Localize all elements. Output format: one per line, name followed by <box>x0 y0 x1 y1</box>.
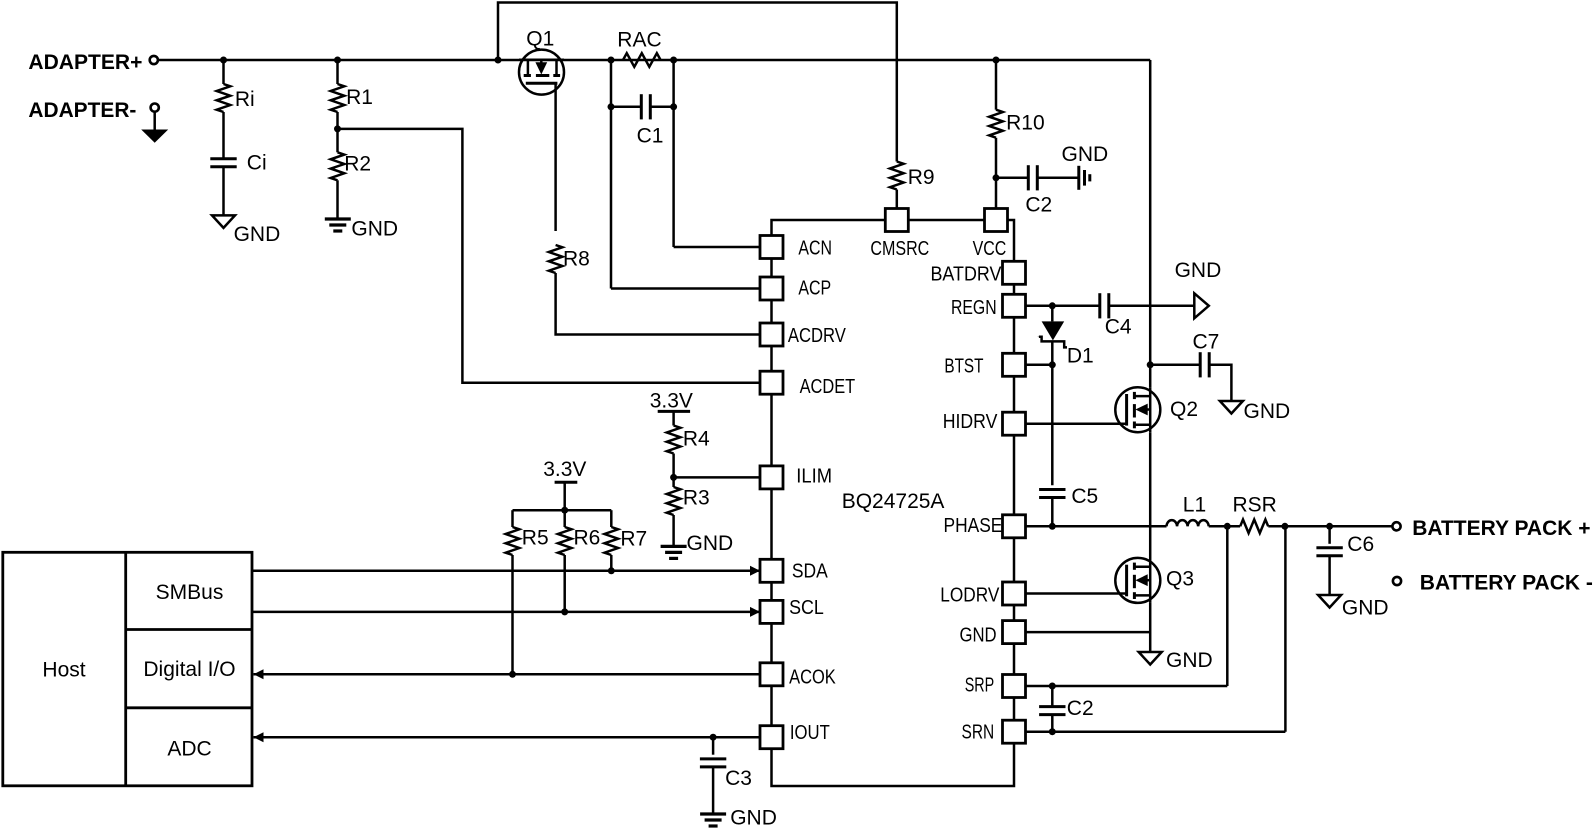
svg-text:R6: R6 <box>574 526 601 549</box>
wire C3 to gnd <box>712 767 715 814</box>
wire bus to R7 <box>610 510 613 527</box>
terminal battery+ <box>1392 522 1400 530</box>
wire L1 to RSR <box>1209 525 1240 528</box>
wire adapter- stub <box>153 112 156 131</box>
capacitor C7 <box>1200 352 1209 377</box>
wire R2 to gnd <box>336 180 339 219</box>
terminal ADAPTER- <box>151 104 159 112</box>
svg-text:ACDRV: ACDRV <box>788 324 846 347</box>
resistor R2 <box>331 152 345 180</box>
wire BTST node to C5 <box>1051 365 1054 486</box>
pin IOUT <box>760 726 783 749</box>
svg-text:Ri: Ri <box>235 88 255 111</box>
capacitor C4 <box>1100 293 1109 318</box>
resistor R6 <box>558 527 572 555</box>
wire to C7 <box>1150 364 1201 367</box>
svg-text:REGN: REGN <box>951 296 997 319</box>
svg-text:C5: C5 <box>1071 485 1098 508</box>
wire R3 to gnd <box>672 515 675 546</box>
wire rail to R1 <box>336 60 339 84</box>
wire to ACN <box>674 246 760 249</box>
inductor L1 <box>1167 520 1209 526</box>
wire node to ACDET <box>338 129 761 383</box>
ground C6 <box>1318 595 1341 608</box>
pin LODRV <box>1003 582 1026 605</box>
ground Ci <box>212 215 235 228</box>
resistor R10 <box>989 110 1003 138</box>
svg-text:RAC: RAC <box>617 29 661 52</box>
adapter- arrow symbol <box>141 130 168 143</box>
wire R10 to VCC <box>995 138 998 209</box>
pin ACOK <box>760 663 783 686</box>
junction R1/R2/ACDET <box>334 125 341 132</box>
IC BQ24725A body <box>772 220 1015 786</box>
resistor R9 <box>890 162 904 190</box>
svg-text:Q2: Q2 <box>1170 398 1198 421</box>
svg-text:R10: R10 <box>1006 112 1045 135</box>
ground C2 (rotated) <box>1079 166 1090 190</box>
svg-text:IOUT: IOUT <box>790 721 830 744</box>
svg-text:ACDET: ACDET <box>800 375 856 398</box>
svg-text:BATDRV: BATDRV <box>931 262 1002 285</box>
arrow SCL into pin <box>750 607 760 617</box>
junction ACOK/R5 <box>509 671 516 678</box>
wire bus to R6 <box>563 510 566 527</box>
wire pullup bus <box>513 509 612 512</box>
junction R4/R3/ILIM <box>670 474 677 481</box>
svg-text:GND: GND <box>1062 143 1109 166</box>
svg-text:ACN: ACN <box>798 237 832 260</box>
wire SRP to C2 <box>1051 686 1054 707</box>
wire R1 to node <box>336 112 339 152</box>
resistor RSR <box>1240 520 1268 534</box>
pin ACP <box>760 277 783 300</box>
svg-text:GND: GND <box>960 624 997 647</box>
junction bus/R6 <box>561 507 568 514</box>
wire rail to R10 <box>995 60 998 110</box>
wire SRP <box>1026 685 1228 688</box>
svg-text:PHASE: PHASE <box>944 514 1003 537</box>
capacitor C6 <box>1316 548 1342 556</box>
svg-text:LODRV: LODRV <box>940 584 999 607</box>
svg-text:D1: D1 <box>1067 345 1094 368</box>
svg-text:C4: C4 <box>1105 316 1132 339</box>
ground C3 <box>700 814 726 826</box>
svg-text:RSR: RSR <box>1233 494 1277 517</box>
wire 3.3V to bus <box>563 482 566 510</box>
junction SRN/C2 <box>1049 728 1056 735</box>
wire GND pin to Q3 source <box>1026 631 1151 634</box>
wire IOUT to C3 <box>712 737 715 755</box>
svg-text:CMSRC: CMSRC <box>870 237 929 260</box>
ground power stage <box>1139 652 1162 665</box>
wire RSR to battery+ <box>1268 525 1392 528</box>
svg-text:C6: C6 <box>1347 533 1374 556</box>
wire PHASE to L1 <box>1026 525 1167 528</box>
wire C6 to gnd <box>1328 556 1331 595</box>
wire LODRV to Q3 gate <box>1026 592 1128 595</box>
svg-text:GND: GND <box>1342 597 1389 620</box>
resistor R4 <box>667 426 681 454</box>
resistor Ri <box>217 84 231 112</box>
pin ACN <box>760 236 783 259</box>
capacitor C3 <box>700 759 726 767</box>
wire SDA <box>252 570 760 573</box>
pin PHASE <box>1003 515 1026 538</box>
svg-text:BQ24725A: BQ24725A <box>842 490 945 513</box>
svg-text:BATTERY PACK -: BATTERY PACK - <box>1420 572 1593 595</box>
wire bus to R5 <box>511 510 514 527</box>
wire C7 to gnd <box>1209 365 1232 401</box>
arrow IOUT into host <box>254 732 264 742</box>
wire IOUT <box>254 736 761 739</box>
pin ACDRV <box>760 323 783 346</box>
terminal ADAPTER+ <box>150 56 158 64</box>
svg-text:C1: C1 <box>637 124 664 147</box>
wire ACOK <box>254 673 761 676</box>
svg-text:R5: R5 <box>522 526 549 549</box>
wire HIDRV to Q2 gate <box>1026 422 1128 425</box>
pin REGN <box>1003 294 1026 317</box>
junction REGN/D1 <box>1049 302 1056 309</box>
junction rail/RAC left <box>608 57 615 64</box>
wire battery to C6 <box>1328 526 1331 544</box>
transistor Q2 <box>1115 387 1160 432</box>
svg-text:R4: R4 <box>683 428 710 451</box>
junction C7 tap <box>1147 361 1154 368</box>
wire R6 to SCL line <box>563 555 566 612</box>
svg-text:VCC: VCC <box>973 237 1007 260</box>
svg-text:SRN: SRN <box>962 720 995 743</box>
junction VCC/C2 <box>993 174 1000 181</box>
resistor R3 <box>667 487 681 515</box>
pin ILIM <box>760 466 783 489</box>
wire rail down to Q2 drain <box>1149 60 1152 387</box>
junction C6 <box>1326 523 1333 530</box>
wire R4 to R3 <box>672 454 675 488</box>
diode D1 (schottky) <box>1042 321 1065 340</box>
wire SRP up to tap <box>1226 526 1229 686</box>
resistor R7 <box>605 527 619 555</box>
wire to C1 left plate <box>611 106 641 109</box>
svg-text:GND: GND <box>687 532 734 555</box>
junction PHASE/C5 <box>1049 523 1056 530</box>
pin BATDRV <box>1003 261 1026 284</box>
transistor Q1 <box>519 50 564 95</box>
wire Q2 source to Q3 drain <box>1149 432 1152 558</box>
svg-text:R1: R1 <box>346 86 373 109</box>
wire SCL <box>252 611 760 614</box>
resistor RAC <box>623 53 661 67</box>
wire to ILIM <box>674 476 760 479</box>
pin HIDRV <box>1003 412 1026 435</box>
junction SRP tap <box>1224 523 1231 530</box>
pin SRN <box>1003 720 1026 743</box>
wire R5 to ACOK line <box>511 555 514 674</box>
wire C5 to PHASE line <box>1051 498 1054 527</box>
svg-text:Digital I/O: Digital I/O <box>143 658 235 681</box>
svg-text:Host: Host <box>42 659 85 682</box>
junction SRP/C2 <box>1049 683 1056 690</box>
junction rail/RAC right <box>670 57 677 64</box>
wire top loop to R9 <box>498 3 897 162</box>
svg-text:ADAPTER-: ADAPTER- <box>28 99 136 122</box>
pin ACDET <box>760 371 783 394</box>
wire C1 right plate out <box>650 106 673 109</box>
capacitor C5 <box>1039 490 1065 498</box>
Host block <box>3 552 252 786</box>
wire SRN <box>1026 730 1286 733</box>
wire C1 right / ACN drop <box>672 60 675 247</box>
junction rail/Ri <box>220 57 227 64</box>
svg-text:HIDRV: HIDRV <box>943 410 998 433</box>
junction SRN tap <box>1281 523 1288 530</box>
wire D1 anode <box>1051 306 1054 322</box>
svg-text:R9: R9 <box>908 166 935 189</box>
svg-text:C2: C2 <box>1025 193 1052 216</box>
svg-text:R2: R2 <box>344 153 371 176</box>
wire rail to Ri <box>222 60 225 84</box>
svg-text:GND: GND <box>730 806 777 829</box>
svg-text:Ci: Ci <box>247 152 267 175</box>
supply bar 3.3V (pullups) <box>555 481 578 484</box>
svg-text:SRP: SRP <box>965 673 995 696</box>
junction C1 left <box>608 103 615 110</box>
capacitor C2 (VCC) <box>1028 165 1037 190</box>
wire to C2 <box>996 177 1028 180</box>
junction IOUT/C3 <box>710 734 717 741</box>
junction rail/top-loop <box>495 57 502 64</box>
svg-text:Q1: Q1 <box>526 28 554 51</box>
wire D1 cathode to BTST node <box>1051 341 1054 364</box>
svg-text:3.3V: 3.3V <box>543 458 586 481</box>
capacitor C1 <box>641 94 650 119</box>
pin CMSRC <box>885 209 908 232</box>
svg-text:C3: C3 <box>725 767 752 790</box>
junction rail/R10 <box>993 57 1000 64</box>
wire SRN up to tap <box>1284 526 1287 731</box>
wire Ri to Ci <box>222 112 225 159</box>
wire Ci to gnd <box>222 167 225 216</box>
resistor R8 <box>549 245 563 273</box>
ground GND arrow (REGN bypass) <box>1194 293 1209 318</box>
svg-text:GND: GND <box>234 223 281 246</box>
svg-text:R3: R3 <box>683 487 710 510</box>
svg-text:R7: R7 <box>620 527 647 550</box>
svg-text:SDA: SDA <box>792 559 828 582</box>
capacitor C2 (sense) <box>1039 707 1065 715</box>
svg-text:SMBus: SMBus <box>156 581 224 604</box>
pin SDA <box>760 559 783 582</box>
pin VCC <box>985 209 1008 232</box>
svg-text:GND: GND <box>351 218 398 241</box>
svg-text:ACP: ACP <box>798 276 831 299</box>
svg-text:ACOK: ACOK <box>789 665 836 688</box>
svg-text:BATTERY PACK +: BATTERY PACK + <box>1412 517 1590 540</box>
svg-text:Q3: Q3 <box>1166 568 1194 591</box>
junction C1 right <box>670 103 677 110</box>
ground C7 <box>1220 401 1243 414</box>
wire C1 left / ACP drop <box>610 60 613 289</box>
svg-text:C7: C7 <box>1193 330 1220 353</box>
svg-text:L1: L1 <box>1183 494 1206 517</box>
junction BTST/D1/C5 <box>1049 361 1056 368</box>
svg-text:GND: GND <box>1175 259 1222 282</box>
wire to ACP <box>611 287 760 290</box>
resistor R1 <box>331 84 345 112</box>
svg-text:SCL: SCL <box>789 596 824 619</box>
svg-text:BTST: BTST <box>944 354 983 377</box>
junction SDA/R7 <box>608 567 615 574</box>
svg-text:GND: GND <box>1166 649 1213 672</box>
arrow SDA into pin <box>750 566 760 576</box>
svg-text:ADC: ADC <box>167 737 211 760</box>
svg-text:3.3V: 3.3V <box>650 389 693 412</box>
pin GND <box>1003 621 1026 644</box>
junction rail/R1 <box>334 57 341 64</box>
terminal battery- <box>1393 577 1401 585</box>
wire R8 to ACDRV <box>556 273 760 335</box>
svg-text:ILIM: ILIM <box>796 464 832 487</box>
wire Q1 gate to R8 <box>554 83 557 231</box>
pin BTST <box>1003 353 1026 376</box>
svg-text:C2: C2 <box>1067 697 1094 720</box>
resistor R5 <box>506 527 520 555</box>
svg-text:R8: R8 <box>563 248 590 271</box>
pin SCL <box>760 600 783 623</box>
wire R7 to SDA line <box>610 555 613 571</box>
arrow ACOK into host <box>254 669 264 679</box>
wire BTST <box>1026 364 1053 367</box>
svg-text:ADAPTER+: ADAPTER+ <box>28 51 142 74</box>
wire 3.3V to R4 <box>672 411 675 425</box>
junction SCL/R6 <box>561 608 568 615</box>
capacitor Ci <box>210 159 236 167</box>
wire main adapter rail <box>158 59 1150 62</box>
svg-text:GND: GND <box>1244 400 1291 423</box>
wire C4 to GND arrow <box>1109 305 1195 308</box>
wire REGN to C4 <box>1026 305 1100 308</box>
wire Q3 source to gnd <box>1149 603 1152 652</box>
wire C2 to gnd <box>1037 177 1079 180</box>
wire R9 to CMSRC <box>896 190 899 210</box>
pin SRP <box>1003 675 1026 698</box>
ground R2 <box>325 219 351 231</box>
wire C2 to SRN <box>1051 715 1054 732</box>
supply bar 3.3V (R4) <box>658 410 690 413</box>
ground R3 <box>661 546 687 558</box>
transistor Q3 <box>1115 558 1160 603</box>
